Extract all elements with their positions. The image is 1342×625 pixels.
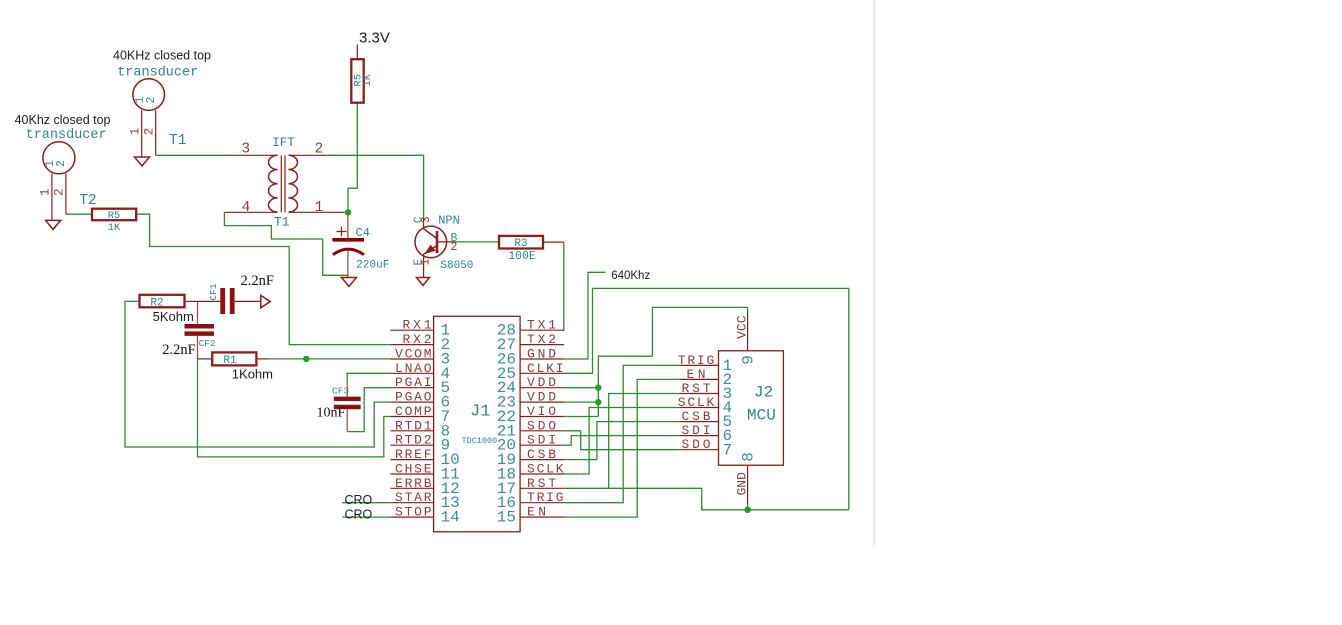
svg-text:R3: R3 bbox=[514, 238, 527, 250]
svg-text:2: 2 bbox=[145, 96, 158, 103]
svg-text:CRO: CRO bbox=[345, 507, 373, 521]
svg-text:NPN: NPN bbox=[438, 214, 460, 228]
svg-text:8: 8 bbox=[739, 452, 757, 462]
svg-text:1: 1 bbox=[315, 200, 324, 216]
svg-text:MCU: MCU bbox=[747, 407, 776, 425]
svg-text:2.2nF: 2.2nF bbox=[162, 342, 195, 358]
svg-text:SDO: SDO bbox=[527, 418, 556, 433]
svg-text:STOP: STOP bbox=[395, 505, 432, 520]
svg-text:1K: 1K bbox=[362, 73, 374, 86]
svg-text:CSB: CSB bbox=[527, 447, 556, 462]
svg-text:TX2: TX2 bbox=[527, 332, 556, 347]
svg-text:2: 2 bbox=[451, 241, 458, 254]
svg-text:TDC1000: TDC1000 bbox=[462, 436, 498, 446]
svg-text:3: 3 bbox=[420, 216, 433, 223]
svg-text:PGAO: PGAO bbox=[395, 390, 432, 405]
svg-text:R2: R2 bbox=[150, 298, 163, 310]
svg-text:RST: RST bbox=[682, 381, 711, 396]
svg-text:IFT: IFT bbox=[272, 136, 295, 150]
svg-text:CLKI: CLKI bbox=[527, 361, 564, 376]
svg-text:2: 2 bbox=[143, 128, 157, 136]
svg-text:STAR: STAR bbox=[395, 490, 432, 505]
svg-text:CF3: CF3 bbox=[332, 385, 349, 396]
svg-text:100E: 100E bbox=[508, 250, 536, 263]
svg-text:RTD2: RTD2 bbox=[395, 433, 432, 448]
svg-text:PGAI: PGAI bbox=[395, 375, 432, 390]
svg-text:4: 4 bbox=[242, 200, 251, 216]
svg-text:S8050: S8050 bbox=[440, 260, 473, 272]
svg-text:C4: C4 bbox=[356, 226, 370, 240]
svg-text:SDI: SDI bbox=[527, 433, 556, 448]
svg-text:transducer: transducer bbox=[26, 128, 107, 143]
svg-text:2: 2 bbox=[315, 142, 324, 158]
svg-text:2: 2 bbox=[53, 188, 67, 196]
svg-text:CF2: CF2 bbox=[199, 338, 216, 349]
svg-text:VDD: VDD bbox=[527, 390, 556, 405]
svg-text:CSB: CSB bbox=[682, 409, 711, 424]
svg-text:40KHz closed top: 40KHz closed top bbox=[113, 48, 211, 62]
svg-text:VIO: VIO bbox=[527, 404, 556, 419]
svg-text:SDI: SDI bbox=[682, 423, 711, 438]
svg-text:TRIG: TRIG bbox=[527, 490, 564, 505]
svg-text:640Khz: 640Khz bbox=[611, 270, 650, 282]
svg-text:2.2nF: 2.2nF bbox=[241, 273, 274, 289]
svg-text:J1: J1 bbox=[470, 403, 490, 422]
svg-text:VCC: VCC bbox=[734, 315, 749, 339]
svg-text:ERRB: ERRB bbox=[395, 476, 432, 491]
svg-text:TRIG: TRIG bbox=[678, 353, 715, 368]
svg-text:SDO: SDO bbox=[682, 437, 711, 452]
svg-text:R5: R5 bbox=[108, 210, 121, 222]
svg-text:R1: R1 bbox=[223, 355, 237, 367]
svg-text:1: 1 bbox=[420, 258, 433, 265]
svg-text:T1: T1 bbox=[274, 215, 290, 230]
svg-text:1: 1 bbox=[39, 188, 53, 196]
svg-text:7: 7 bbox=[723, 441, 733, 459]
svg-text:9: 9 bbox=[739, 355, 757, 365]
svg-text:3: 3 bbox=[241, 142, 250, 158]
svg-text:1: 1 bbox=[129, 128, 143, 136]
svg-text:220uF: 220uF bbox=[356, 259, 389, 271]
svg-text:GND: GND bbox=[527, 347, 556, 362]
svg-text:LNAO: LNAO bbox=[395, 361, 432, 376]
svg-text:5Kohm: 5Kohm bbox=[153, 309, 194, 324]
svg-text:T2: T2 bbox=[79, 193, 96, 209]
svg-text:RX1: RX1 bbox=[403, 318, 432, 333]
svg-text:RX2: RX2 bbox=[403, 332, 432, 347]
svg-text:VCOM: VCOM bbox=[395, 347, 432, 362]
svg-text:SCLK: SCLK bbox=[678, 395, 715, 410]
svg-text:3.3V: 3.3V bbox=[359, 30, 390, 47]
svg-text:TX1: TX1 bbox=[527, 318, 556, 333]
svg-text:J2: J2 bbox=[754, 384, 773, 402]
svg-text:CRO: CRO bbox=[345, 493, 373, 507]
svg-text:CHSE: CHSE bbox=[395, 462, 432, 477]
svg-text:15: 15 bbox=[497, 509, 516, 527]
svg-text:SCLK: SCLK bbox=[527, 462, 564, 477]
svg-text:1Kohm: 1Kohm bbox=[232, 367, 273, 382]
svg-text:COMP: COMP bbox=[395, 404, 432, 419]
svg-text:14: 14 bbox=[441, 509, 460, 527]
svg-text:CF1: CF1 bbox=[208, 283, 219, 300]
svg-text:RST: RST bbox=[527, 476, 556, 491]
svg-text:GND: GND bbox=[734, 472, 749, 496]
svg-text:10nF: 10nF bbox=[317, 406, 346, 421]
svg-text:T1: T1 bbox=[169, 133, 186, 149]
svg-text:transducer: transducer bbox=[117, 66, 198, 81]
svg-text:2: 2 bbox=[55, 160, 68, 167]
svg-text:RREF: RREF bbox=[395, 447, 432, 462]
svg-text:RTD1: RTD1 bbox=[395, 418, 432, 433]
svg-text:40Khz closed top: 40Khz closed top bbox=[15, 113, 111, 127]
svg-text:VDD: VDD bbox=[527, 375, 556, 390]
svg-text:1K: 1K bbox=[108, 222, 121, 234]
